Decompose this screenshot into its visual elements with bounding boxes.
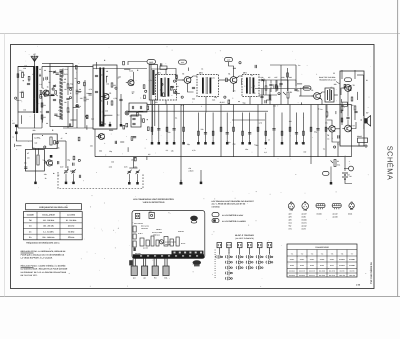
svg-text:FRÉQUENCES DE RÉGLAGE: FRÉQUENCES DE RÉGLAGE: [39, 206, 68, 209]
svg-text:47: 47: [102, 123, 104, 126]
svg-text:4,7k: 4,7k: [192, 149, 195, 152]
wire oval T4 link: [229, 62, 234, 77]
leg component 13 at x242.6: [242, 113, 244, 140]
leg component 9 at x213.1: [212, 113, 214, 140]
svg-text:L1: L1: [21, 70, 23, 73]
svg-text:L4: L4: [39, 68, 41, 71]
svg-text:90 - 104 MHz: 90 - 104 MHz: [66, 219, 77, 222]
wire col x77: [76, 67, 78, 90]
wire feed x296: [295, 65, 297, 86]
coil L1: [22, 73, 24, 78]
svg-text:TRANSISTOR AC 187: TRANSISTOR AC 187: [319, 79, 336, 82]
svg-text:3,3k: 3,3k: [56, 146, 59, 149]
svg-text:56k: 56k: [33, 129, 36, 132]
svg-text:50µ: 50µ: [20, 91, 23, 94]
svg-text:MF3: MF3: [243, 72, 247, 75]
wire transformer to T6: [334, 94, 338, 96]
svg-text:FRÉQUENCE INTERMÉDIAIRE 455 k: FRÉQUENCE INTERMÉDIAIRE 455 kc: [26, 242, 60, 245]
svg-text:MF2: MF2: [199, 72, 203, 75]
leg component 1 at x152: [151, 105, 153, 140]
transistor T7: [345, 125, 352, 132]
leg component 18 at x282: [281, 113, 283, 140]
IF transformer MF2 box: [197, 75, 219, 97]
bus rail second: [126, 110, 268, 112]
svg-text:TRANSISTORS: TRANSISTORS: [315, 246, 329, 249]
MF1 core lines: [163, 78, 165, 98]
wire T6 T7 link: [347, 91, 349, 116]
svg-text:OSCILLATEUR: OSCILLATEUR: [42, 213, 55, 216]
svg-text:LES TENSIONS SONT RELEVÉES PAR: LES TENSIONS SONT RELEVÉES PAR RAPPORT: [212, 200, 255, 203]
wire feed x287: [287, 68, 289, 91]
contact guide ticks: [215, 249, 216, 251]
svg-text:330: 330: [160, 89, 163, 92]
svg-text:25µ: 25µ: [59, 106, 62, 109]
svg-text:100: 100: [279, 85, 282, 88]
svg-text:330: 330: [90, 145, 93, 148]
osc tall box tail: [152, 100, 154, 135]
chassis screw FB2: [149, 212, 154, 218]
svg-text:0,1: 0,1: [181, 104, 183, 107]
ground x190 bottom: [180, 180, 182, 182]
svg-text:1k: 1k: [47, 85, 49, 88]
transistors table: [287, 244, 357, 277]
capacitor C7: [53, 98, 56, 100]
leg component 16 at x265.8: [265, 113, 267, 140]
svg-text:50µ: 50µ: [70, 83, 73, 86]
svg-text:100 - 102 MHz: 100 - 102 MHz: [43, 219, 55, 222]
wire MF1 top feed: [151, 69, 166, 75]
potentiometer VOL: [334, 160, 336, 167]
svg-text:50µ: 50µ: [314, 131, 317, 134]
svg-text:50µ: 50µ: [243, 101, 246, 104]
chassis foot right: [193, 260, 201, 265]
knob 2: [142, 266, 148, 276]
svg-text:330: 330: [132, 91, 135, 94]
resistor R20: [276, 86, 278, 90]
svg-text:SAUF TSF 3143 S56:: SAUF TSF 3143 S56:: [319, 76, 336, 79]
svg-text:L8: L8: [106, 70, 108, 73]
transistor T4: [230, 77, 237, 84]
svg-text:FOL: FOL: [164, 277, 167, 280]
push button S5: [257, 243, 262, 248]
ground CV3b: [137, 180, 139, 182]
svg-text:LA VRAIE RAPPORT À LA VALEU: LA VRAIE RAPPORT À LA VALEUR.: [21, 256, 54, 259]
wire rail drop x206: [205, 97, 207, 113]
MF3 winding b: [253, 78, 255, 94]
transistor T5: [314, 93, 321, 100]
leg component 3 at x167: [166, 105, 168, 140]
svg-text:56k: 56k: [99, 150, 102, 153]
svg-text:0,1: 0,1: [323, 148, 325, 151]
capacitor C25: [279, 82, 282, 84]
svg-text:T 1: T 1: [291, 252, 293, 255]
svg-text:P1: P1: [290, 91, 292, 94]
svg-text:CONTINU: CONTINU: [212, 205, 221, 208]
wire output right rail: [357, 74, 364, 76]
svg-text:100: 100: [176, 85, 179, 88]
svg-text:4,7k: 4,7k: [259, 122, 262, 125]
svg-text:T 7: T 7: [351, 252, 353, 255]
svg-text:200 kHz: 200 kHz: [68, 225, 75, 228]
voltmeter symbol 2: [212, 219, 219, 223]
push button S3: [237, 243, 242, 248]
oval label T4: [225, 58, 233, 62]
wire detector out: [266, 79, 296, 81]
svg-text:2,2k: 2,2k: [130, 70, 133, 73]
wire speaker feed top: [361, 119, 363, 121]
wire lower mesh 2: [57, 140, 66, 142]
pinout symbol 3: [316, 203, 325, 207]
svg-text:180 - 290 kHz: 180 - 290 kHz: [43, 225, 54, 228]
svg-text:1k: 1k: [32, 73, 34, 76]
svg-text:150: 150: [155, 101, 158, 104]
svg-text:25µ: 25µ: [228, 141, 231, 144]
osc tall box winding: [152, 70, 154, 95]
wire CV3 feed: [133, 157, 135, 168]
svg-text:AU VOLTMÈTRE 20 kΩ/V: AU VOLTMÈTRE 20 kΩ/V: [222, 214, 244, 217]
svg-text:5n: 5n: [47, 94, 49, 97]
diode D1: [259, 79, 266, 81]
svg-text:0,5: 0,5: [24, 162, 26, 165]
contact stack S4: [245, 256, 248, 259]
svg-text:10k: 10k: [106, 83, 109, 86]
MF3 core lines: [249, 77, 251, 94]
small box padder2: [131, 115, 141, 127]
oval label T6: [345, 78, 352, 82]
svg-text:150: 150: [118, 75, 121, 78]
wire battery mesh: [344, 157, 346, 171]
wire T4 collector: [237, 76, 242, 78]
svg-text:6,1 - 9,6 MHz: 6,1 - 9,6 MHz: [43, 230, 54, 233]
ground CV3a: [128, 180, 130, 182]
osc tall box: [149, 65, 157, 101]
svg-text:TSF 3143 SÉRIE 56: TSF 3143 SÉRIE 56: [369, 262, 373, 284]
svg-text:1k: 1k: [68, 111, 70, 114]
leg component 23 at x318: [317, 105, 319, 157]
svg-text:15n: 15n: [134, 165, 137, 168]
svg-text:100: 100: [23, 67, 26, 70]
svg-text:L5: L5: [64, 78, 66, 81]
winding bar L8b: [103, 68, 105, 127]
wire rail drop x166: [165, 100, 167, 105]
svg-text:SCHÉMA: SCHÉMA: [386, 146, 395, 181]
speaker HP: [365, 118, 368, 123]
wire MF2 out: [219, 79, 231, 81]
transistor T2b: [128, 80, 134, 86]
agc capacitor C13: [66, 97, 69, 99]
push button S4: [247, 243, 252, 248]
variable capacitor CV3a: [128, 170, 131, 172]
pinout symbol 5: [349, 203, 354, 208]
wire T3 collector: [191, 76, 197, 78]
transistor T6: [345, 85, 352, 92]
svg-text:25µ: 25µ: [109, 150, 112, 153]
contact stack S6: [265, 256, 268, 259]
mechanical link dashed: [58, 172, 143, 189]
capacitor C20: [192, 86, 195, 88]
clutter parts converter section: [147, 119, 148, 120]
wire T3 base: [177, 79, 185, 81]
IF transformer MF3 box: [242, 75, 259, 97]
resistor R23: [287, 73, 289, 77]
leg component 20 at x296.5: [296, 113, 298, 140]
bus rail third: [232, 119, 265, 121]
resistor R35: [341, 118, 343, 122]
resistor R24: [265, 86, 267, 90]
svg-text:2,2k: 2,2k: [109, 166, 112, 169]
svg-text:330: 330: [303, 151, 306, 154]
chassis left column parts: [133, 226, 136, 232]
wire lower mesh 1: [16, 131, 32, 141]
wire T5 base: [299, 95, 314, 97]
small box padder: [129, 103, 147, 112]
capacitor C24: [294, 88, 297, 90]
svg-text:- 6,5 V: - 6,5 V: [219, 101, 225, 104]
coil L2: [22, 93, 24, 98]
push button S1: [217, 243, 222, 248]
MF1 winding b: [168, 78, 170, 97]
wire T8 link: [335, 128, 340, 130]
svg-text:MF1: MF1: [157, 72, 161, 75]
chassis foot left: [129, 260, 133, 265]
pinout symbol 2: [302, 203, 309, 210]
leg component 11 at x227.2: [226, 113, 228, 140]
resistor R6: [111, 101, 113, 105]
wire col x121: [120, 94, 122, 122]
volume pot P1: [287, 92, 289, 98]
leg component 12 at x233.5: [233, 105, 235, 157]
leg component 6 at x181: [180, 105, 182, 180]
clutter parts IF1 section: [176, 75, 178, 79]
svg-text:150: 150: [40, 111, 43, 114]
svg-text:12k: 12k: [171, 149, 174, 152]
winding bar L8a: [99, 68, 101, 127]
resistor R4: [84, 97, 86, 101]
oscillator coil box L8: [93, 65, 117, 129]
transistor T3: [184, 77, 191, 84]
wire top rail left: [42, 66, 93, 68]
svg-text:AU (−), PRISE DE DÉCOUPLAGE ET: AU (−), PRISE DE DÉCOUPLAGE ET EN: [212, 203, 246, 206]
resistor R1: [41, 103, 43, 107]
resistor R30: [341, 106, 343, 110]
ground T2 col1: [101, 122, 103, 124]
contact stack S3: [235, 256, 238, 259]
chassis adjust circle: [159, 240, 163, 244]
chassis knob stems: [132, 258, 134, 266]
leg component 22 at x311: [310, 105, 312, 157]
svg-text:0,1: 0,1: [251, 74, 253, 77]
svg-text:150: 150: [80, 97, 83, 100]
battery B1: [342, 172, 348, 174]
svg-text:R5: R5: [114, 84, 116, 87]
svg-text:12k: 12k: [252, 85, 255, 88]
ferrite rod bar 1: [33, 66, 35, 113]
svg-text:100: 100: [289, 120, 292, 123]
svg-text:4,7k: 4,7k: [301, 142, 304, 145]
ground vol: [330, 180, 332, 182]
antenna AT: [31, 57, 38, 62]
svg-text:0,1: 0,1: [117, 114, 119, 117]
svg-text:220: 220: [24, 64, 27, 67]
resistor R5: [111, 83, 113, 87]
terminal BT: [15, 125, 18, 128]
svg-text:4,7k: 4,7k: [211, 77, 214, 80]
wire input mesh 2: [41, 67, 43, 89]
wire box CV1 top: [42, 63, 50, 65]
coil box L6: [32, 134, 57, 149]
resistor R34: [351, 97, 353, 101]
svg-text:0,1: 0,1: [166, 149, 168, 152]
svg-text:T3: T3: [182, 73, 184, 76]
svg-text:5n: 5n: [134, 157, 136, 160]
transistor T2: [103, 94, 109, 100]
svg-text:CV3: CV3: [124, 166, 127, 169]
wire osc drop: [150, 64, 152, 105]
gang capacitor CV1 plates: [60, 70, 63, 120]
svg-text:220: 220: [168, 131, 171, 134]
resistor R33: [326, 112, 328, 116]
ground x201 bottom: [200, 179, 202, 181]
svg-text:330: 330: [111, 160, 114, 163]
clutter parts input section: [56, 72, 59, 74]
coil box L7: [25, 150, 44, 172]
leg component 8 at x205.5: [205, 113, 207, 140]
capacitor C10: [95, 74, 98, 76]
svg-text:520 - 1620 kHz: 520 - 1620 kHz: [43, 236, 55, 239]
leg component 5 at x183.6: [183, 105, 185, 140]
svg-text:0,5: 0,5: [148, 153, 150, 156]
trimmer C5: [53, 70, 56, 72]
svg-text:25µ: 25µ: [187, 143, 190, 146]
svg-text:T2: T2: [109, 92, 111, 95]
wire det mesh2: [259, 94, 277, 96]
wire det drop x263: [262, 80, 264, 95]
bus rail bottom: [95, 156, 352, 158]
coil winding L7: [37, 155, 39, 165]
svg-text:220: 220: [91, 118, 94, 121]
transistor T9 lower: [47, 160, 53, 166]
ground T2 col3: [120, 122, 122, 124]
MF1 trimmer: [171, 85, 174, 87]
chassis front dark bar: [133, 254, 204, 258]
svg-text:50µ: 50µ: [253, 91, 256, 94]
svg-text:CV1: CV1: [64, 73, 68, 76]
leg component 21 at x303.4: [302, 113, 304, 140]
svg-text:T6: T6: [353, 84, 355, 87]
svg-text:5n: 5n: [320, 108, 322, 111]
trimmer C6: [53, 84, 56, 86]
agc resistor R7: [67, 84, 69, 88]
wire input mesh 1: [35, 114, 43, 129]
leg component 24 at x326: [325, 105, 327, 157]
wire top rail converter: [93, 68, 147, 70]
svg-text:P2: P2: [337, 160, 339, 163]
svg-text:12k: 12k: [63, 81, 66, 84]
svg-text:POUR QUE L’AIGUILLE DU CV DÉTE: POUR QUE L’AIGUILLE DU CV DÉTERMINÉE DE: [21, 253, 65, 256]
pinout symbol 1: [288, 203, 294, 209]
svg-text:56k: 56k: [192, 98, 195, 101]
knob 1: [131, 266, 137, 276]
MF2 winding b: [210, 78, 212, 94]
knob 4: [163, 266, 169, 276]
pinout symbol 4: [332, 203, 341, 207]
svg-text:1k: 1k: [327, 138, 329, 141]
svg-text:BLOC À TOUCHES: BLOC À TOUCHES: [235, 234, 254, 237]
capacitor C12: [119, 98, 122, 100]
transistor T10 mixer: [99, 134, 105, 140]
coil winding L6: [50, 137, 52, 145]
bus rail 6.5V: [147, 104, 352, 106]
svg-text:25µ: 25µ: [233, 143, 236, 146]
svg-text:15n: 15n: [101, 121, 104, 124]
svg-text:12k: 12k: [48, 159, 51, 162]
svg-text:4,7k: 4,7k: [89, 88, 92, 91]
leg component 14 at x249.7: [249, 113, 251, 140]
wire mid rail left: [63, 127, 93, 129]
capacitor C8: [46, 110, 49, 112]
svg-text:100: 100: [100, 74, 103, 77]
wire rail T3 feed: [166, 69, 176, 81]
wire bottom rail left drop: [94, 129, 96, 157]
svg-text:330: 330: [103, 115, 106, 118]
svg-text:1k: 1k: [318, 107, 320, 110]
MF3 winding a: [246, 78, 248, 94]
leg component 4 at x174.1: [173, 105, 175, 140]
leg component 10 at x221: [220, 105, 222, 157]
terminal AT2: [15, 132, 18, 135]
wire col x85: [84, 80, 86, 96]
transistor T8 driver: [329, 126, 335, 132]
frequency table header box: [26, 204, 82, 210]
svg-text:CV2: CV2: [60, 166, 63, 169]
leg component 15 at x258: [257, 105, 259, 157]
svg-text:100: 100: [273, 105, 276, 108]
driver transformer windings: [327, 90, 329, 100]
svg-text:470: 470: [351, 104, 354, 107]
resistor R22: [269, 95, 271, 99]
svg-text:15n: 15n: [341, 104, 344, 107]
svg-text:R2: R2: [44, 116, 46, 119]
wire bottom rail drops right: [337, 142, 339, 157]
MF1 winding a: [161, 78, 163, 97]
clutter parts driver section: [300, 102, 302, 105]
leg component 2 at x158.8: [158, 105, 160, 140]
resistor R3: [76, 90, 78, 94]
wire rail drop x250: [249, 97, 251, 105]
leg component 19 at x290: [289, 105, 291, 157]
wire driver rail drop2: [269, 89, 271, 105]
svg-text:4,7k: 4,7k: [149, 79, 152, 82]
wire det to pot: [281, 80, 288, 91]
svg-text:15n: 15n: [245, 148, 248, 151]
svg-text:L9: L9: [106, 75, 108, 78]
transistor T1: [43, 90, 49, 96]
svg-text:25µ: 25µ: [67, 158, 70, 161]
svg-text:(VU CÔTÉ ÉLÉMENTS): (VU CÔTÉ ÉLÉMENTS): [235, 237, 254, 240]
clutter parts IF2 section: [254, 65, 256, 68]
svg-text:7,5 MHz: 7,5 MHz: [68, 230, 75, 233]
ground CV2a: [65, 179, 67, 181]
svg-text:T5: T5: [311, 89, 313, 92]
svg-text:2,2k: 2,2k: [212, 99, 215, 102]
wire T3 emitter drop: [188, 83, 194, 92]
wire det drop x276: [275, 80, 277, 92]
oval label T3: [179, 60, 187, 64]
svg-text:5n: 5n: [298, 64, 300, 67]
MF2 core lines: [205, 77, 207, 94]
svg-text:12k: 12k: [297, 89, 300, 92]
dark square lower: [50, 155, 53, 158]
